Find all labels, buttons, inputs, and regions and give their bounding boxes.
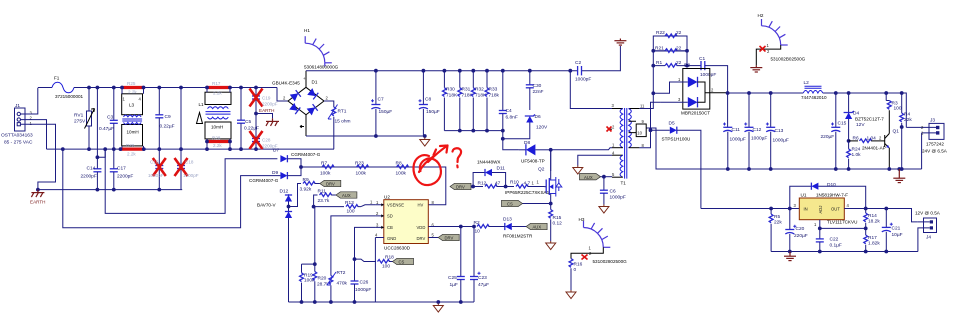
choke L1 [199,88,232,150]
capacitor C14 [81,157,102,189]
diode D8 [519,140,551,164]
svg-text:J3: J3 [930,118,935,124]
capacitor C15 [821,91,847,171]
svg-text:R14: R14 [868,213,877,219]
wire T1 pin 11 up to anode node [639,93,653,108]
resistor R18 with CS flag [355,255,414,270]
svg-text:2N4401-AP: 2N4401-AP [862,146,886,151]
wire top rail to bridge left vertex [277,88,288,102]
svg-text:BAV70-V: BAV70-V [257,203,276,208]
resistor R25 (DNP) [120,81,145,95]
svg-text:D13: D13 [503,217,512,223]
svg-text:C11: C11 [732,127,741,133]
svg-text:10µF: 10µF [892,232,903,238]
svg-text:C13: C13 [775,128,784,134]
svg-text:150µF: 150µF [379,109,393,115]
svg-text:1000µF: 1000µF [751,136,767,142]
svg-text:1000pF: 1000pF [700,72,716,78]
wire T1 pin 4 to gnd [578,155,612,165]
svg-text:1000pF: 1000pF [148,173,164,178]
svg-text:2.2k: 2.2k [213,143,222,148]
svg-text:DRV: DRV [417,236,426,241]
svg-text:TLV1117CKVU: TLV1117CKVU [827,220,857,225]
svg-text:100: 100 [382,264,390,270]
svg-text:C1: C1 [699,56,705,62]
svg-text:C22: C22 [830,237,839,243]
svg-text:7447462010: 7447462010 [801,95,827,100]
L-tap vertical to C14 and D7 feed [96,88,98,158]
capacitor C19 (DNP, crossed) [250,86,278,114]
svg-text:R32: R32 [475,87,484,93]
svg-text:1.0k: 1.0k [852,152,862,158]
svg-text:18.2k: 18.2k [868,219,880,225]
svg-text:R31: R31 [462,87,471,93]
svg-text:D8: D8 [524,140,530,146]
net flag AUX near R11 [336,192,357,198]
thermistor RT2 [327,216,375,304]
diode D7 [273,148,321,168]
svg-text:R17: R17 [212,81,221,86]
svg-text:2200pF: 2200pF [81,174,97,180]
svg-text:0.12: 0.12 [553,221,563,227]
N rail [47,148,335,150]
resistor R32 [471,69,487,133]
capacitor C8 [419,69,440,136]
net flag DRV at U2 DRV pin [429,234,460,240]
svg-text:531002B02500G: 531002B02500G [771,57,806,62]
resistor R33 [485,69,499,133]
capacitor C30 [526,69,544,110]
svg-text:22: 22 [676,46,682,52]
svg-text:22: 22 [676,60,682,66]
svg-text:0.47µF: 0.47µF [99,126,114,132]
svg-text:CS: CS [399,260,405,265]
svg-text:718K: 718K [446,93,458,99]
svg-text:D2: D2 [684,63,690,69]
wire J1 pin3 to top rail [21,88,38,114]
svg-text:275V: 275V [74,119,86,125]
svg-text:R13: R13 [345,200,354,206]
resistor R14 [864,207,881,231]
svg-text:2200pF: 2200pF [262,102,278,107]
svg-text:OUT: OUT [831,207,840,212]
svg-text:ADJ: ADJ [818,206,823,214]
resistor R28 (DNP) [205,136,232,152]
HV sense divider row [301,167,446,205]
svg-text:AUX: AUX [584,175,593,180]
svg-text:RV1: RV1 [74,113,84,119]
svg-text:EARTH: EARTH [259,108,275,113]
resistor R8 [396,161,409,177]
zener D4 [844,91,885,139]
svg-text:1N4448WX: 1N4448WX [477,160,501,165]
svg-text:UCC28630D: UCC28630D [384,246,411,251]
net flag DRV gate side [450,183,473,189]
svg-text:C12: C12 [753,127,762,133]
svg-text:GBU4K-E345: GBU4K-E345 [272,81,300,86]
triangle polarity mark [197,113,203,124]
resistor R20 [302,207,330,304]
svg-text:D6: D6 [535,114,541,120]
svg-text:IN: IN [804,207,808,212]
svg-text:718k: 718k [489,93,500,99]
svg-text:D1: D1 [312,80,318,85]
resistor R23 [355,161,369,177]
svg-text:R22: R22 [656,30,665,36]
svg-text:OSTTA034163: OSTTA034163 [1,133,33,139]
svg-text:220µF: 220µF [821,134,835,140]
svg-text:100k: 100k [396,171,407,177]
svg-text:R28: R28 [212,136,221,141]
svg-text:L1: L1 [199,102,205,107]
svg-text:R10: R10 [510,180,519,186]
svg-text:22k: 22k [904,117,912,123]
svg-text:47: 47 [495,181,501,187]
wire bridge bottom vertex to GND rail [305,115,307,136]
svg-text:C26: C26 [360,280,369,286]
svg-text:R12: R12 [478,181,487,187]
wire T1 pin 8 to D2 pin3 and D5 [639,102,660,148]
svg-text:0: 0 [574,267,577,273]
svg-text:R26: R26 [126,143,135,148]
wire N tap to D9 [63,149,281,228]
svg-text:RT1: RT1 [338,109,347,115]
resistor R5 [769,207,782,252]
svg-text:J4: J4 [926,235,931,241]
IC U1 TLV1117 [794,193,858,225]
capacitor C23 [470,225,489,302]
svg-text:R33: R33 [489,87,498,93]
svg-text:R16: R16 [574,262,583,268]
resistor R3 [884,91,902,111]
capacitor C21 [882,207,903,254]
svg-text:22k: 22k [774,220,782,226]
svg-text:C2: C2 [575,60,581,66]
dual diode D2 [653,63,727,116]
svg-text:24V @ 6.5A: 24V @ 6.5A [922,149,948,154]
zener D6 [503,114,548,139]
capacitor C17 [110,149,134,190]
resistor R26 (DNP) [119,143,146,157]
capacitor C6 [599,177,626,213]
svg-text:1000µF: 1000µF [730,137,746,143]
svg-text:R8: R8 [396,161,402,167]
svg-text:R25: R25 [127,81,136,86]
svg-text:AUX: AUX [533,225,542,230]
svg-text:530614800000G: 530614800000G [304,65,339,70]
AC mark [300,125,304,127]
earth line B [38,189,182,191]
capacitor C3 [99,86,118,151]
wire DC+ drop to T1 pin 3 [570,71,612,109]
svg-text:100: 100 [894,106,902,112]
svg-text:R23: R23 [355,161,364,167]
diode D13 [498,217,547,239]
svg-text:R2: R2 [474,220,480,226]
svg-text:CB: CB [387,225,393,230]
IC U2 UCC28630 [375,195,435,251]
svg-text:RT2: RT2 [337,270,346,276]
svg-text:C9: C9 [165,114,171,120]
transistor Q1 [862,110,899,171]
svg-text:220µF: 220µF [794,233,808,239]
svg-text:H1: H1 [304,28,310,33]
svg-text:C28: C28 [262,138,271,143]
svg-text:C5: C5 [245,119,251,125]
svg-text:2200pF: 2200pF [117,174,133,180]
svg-text:UF5408-TP: UF5408-TP [521,159,545,164]
capacitor C4 [499,69,518,131]
svg-text:1.04: 1.04 [867,136,877,142]
clamp node wire [444,130,502,132]
capacitor C20 [785,207,807,254]
svg-text:D7: D7 [273,148,279,154]
svg-text:R6: R6 [853,136,859,142]
resistor R1 [651,36,689,68]
T1 pin 2 stub (unconnected) [607,127,613,132]
diode D9 [249,167,301,183]
svg-text:85 - 275 VAC: 85 - 275 VAC [4,140,33,146]
12V out row [844,209,918,222]
svg-text:H2: H2 [758,13,764,18]
svg-text:R9: R9 [303,177,309,183]
svg-text:1000pF: 1000pF [355,287,371,293]
wire T1 pin 5 to AUX node [604,176,612,178]
wire J1 pin2 to N rail [21,120,47,150]
svg-text:J1: J1 [15,103,20,109]
resistor R12 [473,181,507,189]
svg-text:C18: C18 [185,160,194,165]
GND symbol on bottom rail [433,300,443,312]
svg-text:STPS1H100U: STPS1H100U [662,137,691,142]
svg-text:C23: C23 [478,275,487,281]
capacitor C11 [723,93,746,171]
svg-text:C16: C16 [150,160,159,165]
svg-text:D5: D5 [669,121,675,127]
svg-text:2.2k: 2.2k [127,152,136,157]
resistor R31 [458,69,474,133]
svg-text:1000pF: 1000pF [610,195,626,201]
svg-text:1000pF: 1000pF [575,77,591,83]
choke L3 [122,88,144,150]
thermistor RT1 [324,101,351,149]
svg-text:10mH: 10mH [211,125,223,130]
svg-text:C4: C4 [506,108,512,114]
capacitor C12 [744,91,767,171]
wire J1 pin1 to earth node [21,124,56,189]
capacitor C18 (DNP, crossed) [175,86,199,190]
diode D10 bypass [790,182,866,209]
svg-text:R30: R30 [446,87,455,93]
svg-text:R21: R21 [655,46,664,52]
svg-text:C6: C6 [610,189,616,195]
svg-text:D12: D12 [280,189,289,195]
EARTH mid symbol [254,108,279,126]
svg-text:C3: C3 [107,115,113,121]
svg-text:D10: D10 [827,182,836,188]
capacitor C1 [687,56,728,93]
svg-text:SD: SD [387,214,393,219]
resistor R7 [320,161,334,177]
earth top right [614,39,626,46]
heatsink H2 [750,13,805,72]
svg-text:C20: C20 [796,226,805,232]
wire U2 GND pin to bottom rail [374,238,376,303]
svg-text:0.22µF: 0.22µF [244,126,259,132]
varistor RV1 [74,86,95,151]
LDO ground rail [771,251,918,253]
DC+ rail [306,70,578,72]
svg-text:1N5819HW-7-F: 1N5819HW-7-F [816,193,848,198]
GND rail dots [374,134,378,138]
resistor R16 [566,259,583,299]
primary bottom rail [289,301,475,303]
connector J4 [915,211,941,252]
heatsink H3 [571,217,627,264]
resistor R17b [864,228,881,253]
resistor R6 [847,136,885,143]
capacitor C2 [575,60,591,83]
svg-text:100k: 100k [356,171,367,177]
svg-text:CGRM4007-G: CGRM4007-G [291,152,321,157]
svg-text:1000pF: 1000pF [183,173,199,178]
svg-text:D11: D11 [497,166,506,172]
ADJ pin wire and C22 [814,220,866,254]
svg-text:RF081M2STR: RF081M2STR [503,234,533,239]
svg-text:BZT52C12T-7: BZT52C12T-7 [855,117,884,122]
CS node and R15 [546,202,562,250]
resistor R4 [900,91,913,171]
svg-text:22nF: 22nF [533,89,544,95]
svg-text:1757242: 1757242 [926,142,944,147]
capacitor C5 [237,86,259,151]
svg-text:6.8nF: 6.8nF [506,115,518,121]
earth bars LDO [784,252,796,261]
svg-text:C14: C14 [87,166,96,172]
resistor R11 row to AUX flag [314,189,336,207]
svg-text:R18: R18 [385,255,394,261]
svg-text:VSENSE: VSENSE [387,202,404,207]
svg-text:12V: 12V [856,122,865,128]
svg-text:C7: C7 [378,97,384,103]
resistor R22 [653,30,687,38]
resistor R19 [300,264,315,304]
svg-text:HV: HV [418,202,424,207]
resistor R9 row to DRV flag [289,177,320,207]
resistor R13 to VSENSE [312,200,376,215]
svg-text:CS: CS [507,202,513,207]
svg-text:GND: GND [387,236,396,241]
wire bridge top vertex to DC+ rail [305,71,307,88]
svg-text:470k: 470k [337,281,348,287]
svg-text:C8: C8 [425,97,431,103]
svg-text:AUX: AUX [342,193,351,198]
svg-text:2.2k: 2.2k [213,91,222,96]
capacitor C16 (DNP, crossed) [148,149,166,191]
net flag CS at Q2 source [502,200,551,206]
diode D5 [651,121,701,209]
svg-text:DRV: DRV [445,236,454,241]
wire T1 pin 1 to switch node [551,148,612,150]
svg-text:L2: L2 [804,80,810,86]
svg-text:10: 10 [637,131,642,136]
svg-text:4.7: 4.7 [524,181,531,187]
primary GND symbol under C8 [420,138,430,147]
0V rail [656,168,922,170]
svg-text:0.1µF: 0.1µF [830,243,842,249]
svg-text:DRV: DRV [456,185,465,190]
EARTH symbol bottom left [30,190,46,205]
svg-text:22: 22 [676,30,682,36]
capacitor C13 [766,91,789,171]
resistor R10 gate [506,180,545,189]
svg-text:CGRM4007-G: CGRM4007-G [249,178,279,183]
LDO input row [701,208,799,210]
svg-text:531002802500G: 531002802500G [593,259,628,264]
capacitor C7 [371,69,392,136]
svg-text:EARTH: EARTH [30,200,46,205]
svg-text:3.92k: 3.92k [300,187,312,193]
svg-text:1.82k: 1.82k [868,241,880,247]
resistor R17 (DNP) [205,81,232,96]
svg-text:C15: C15 [838,121,847,127]
svg-text:F1: F1 [54,76,60,81]
capacitor C25 [448,225,465,304]
svg-text:10: 10 [475,229,481,235]
svg-text:150µF: 150µF [426,109,440,115]
svg-text:C19: C19 [262,96,271,101]
inductor L2 [801,80,827,100]
svg-text:C17: C17 [117,166,126,172]
svg-text:L3: L3 [129,103,135,108]
dual diode D12 BAV70 [257,189,292,303]
svg-text:R20: R20 [318,276,327,282]
wire T1 pins 9/10 short to 0V [646,128,728,169]
capacitor C27 (DNP, crossed) [250,114,278,152]
svg-text:120V: 120V [536,125,548,131]
resistor R24 [847,141,861,171]
resistor R21 [651,46,689,53]
clamp to D8 wire [503,131,519,150]
svg-text:R7: R7 [321,161,327,167]
svg-text:1000µF: 1000µF [773,138,789,144]
svg-text:D9: D9 [272,170,278,176]
capacitor C9 [155,86,174,151]
svg-text:37215000001: 37215000001 [55,94,84,99]
svg-text:R1: R1 [656,60,662,66]
GND bars 24V return [893,167,905,183]
svg-text:MBR20150CT: MBR20150CT [681,111,710,116]
svg-text:T1: T1 [621,181,627,186]
fuse F1 [38,76,89,100]
output rail +24V [728,93,907,127]
svg-text:DRV: DRV [326,182,335,187]
heatsink H1 [304,28,339,70]
connector J3 [906,118,947,170]
svg-text:R11: R11 [318,189,327,195]
svg-text:R5: R5 [774,214,780,220]
svg-text:R17: R17 [868,235,877,241]
MOSFET Q2 [505,150,562,204]
svg-text:Q1: Q1 [893,129,900,135]
resistor R30 [443,69,459,131]
top rail L [89,87,277,89]
svg-text:R4: R4 [904,112,910,118]
svg-text:C21: C21 [892,226,901,232]
red hand-drawn annotation [413,146,461,186]
svg-text:15 ohm: 15 ohm [335,119,351,125]
svg-text:H3: H3 [579,217,585,222]
